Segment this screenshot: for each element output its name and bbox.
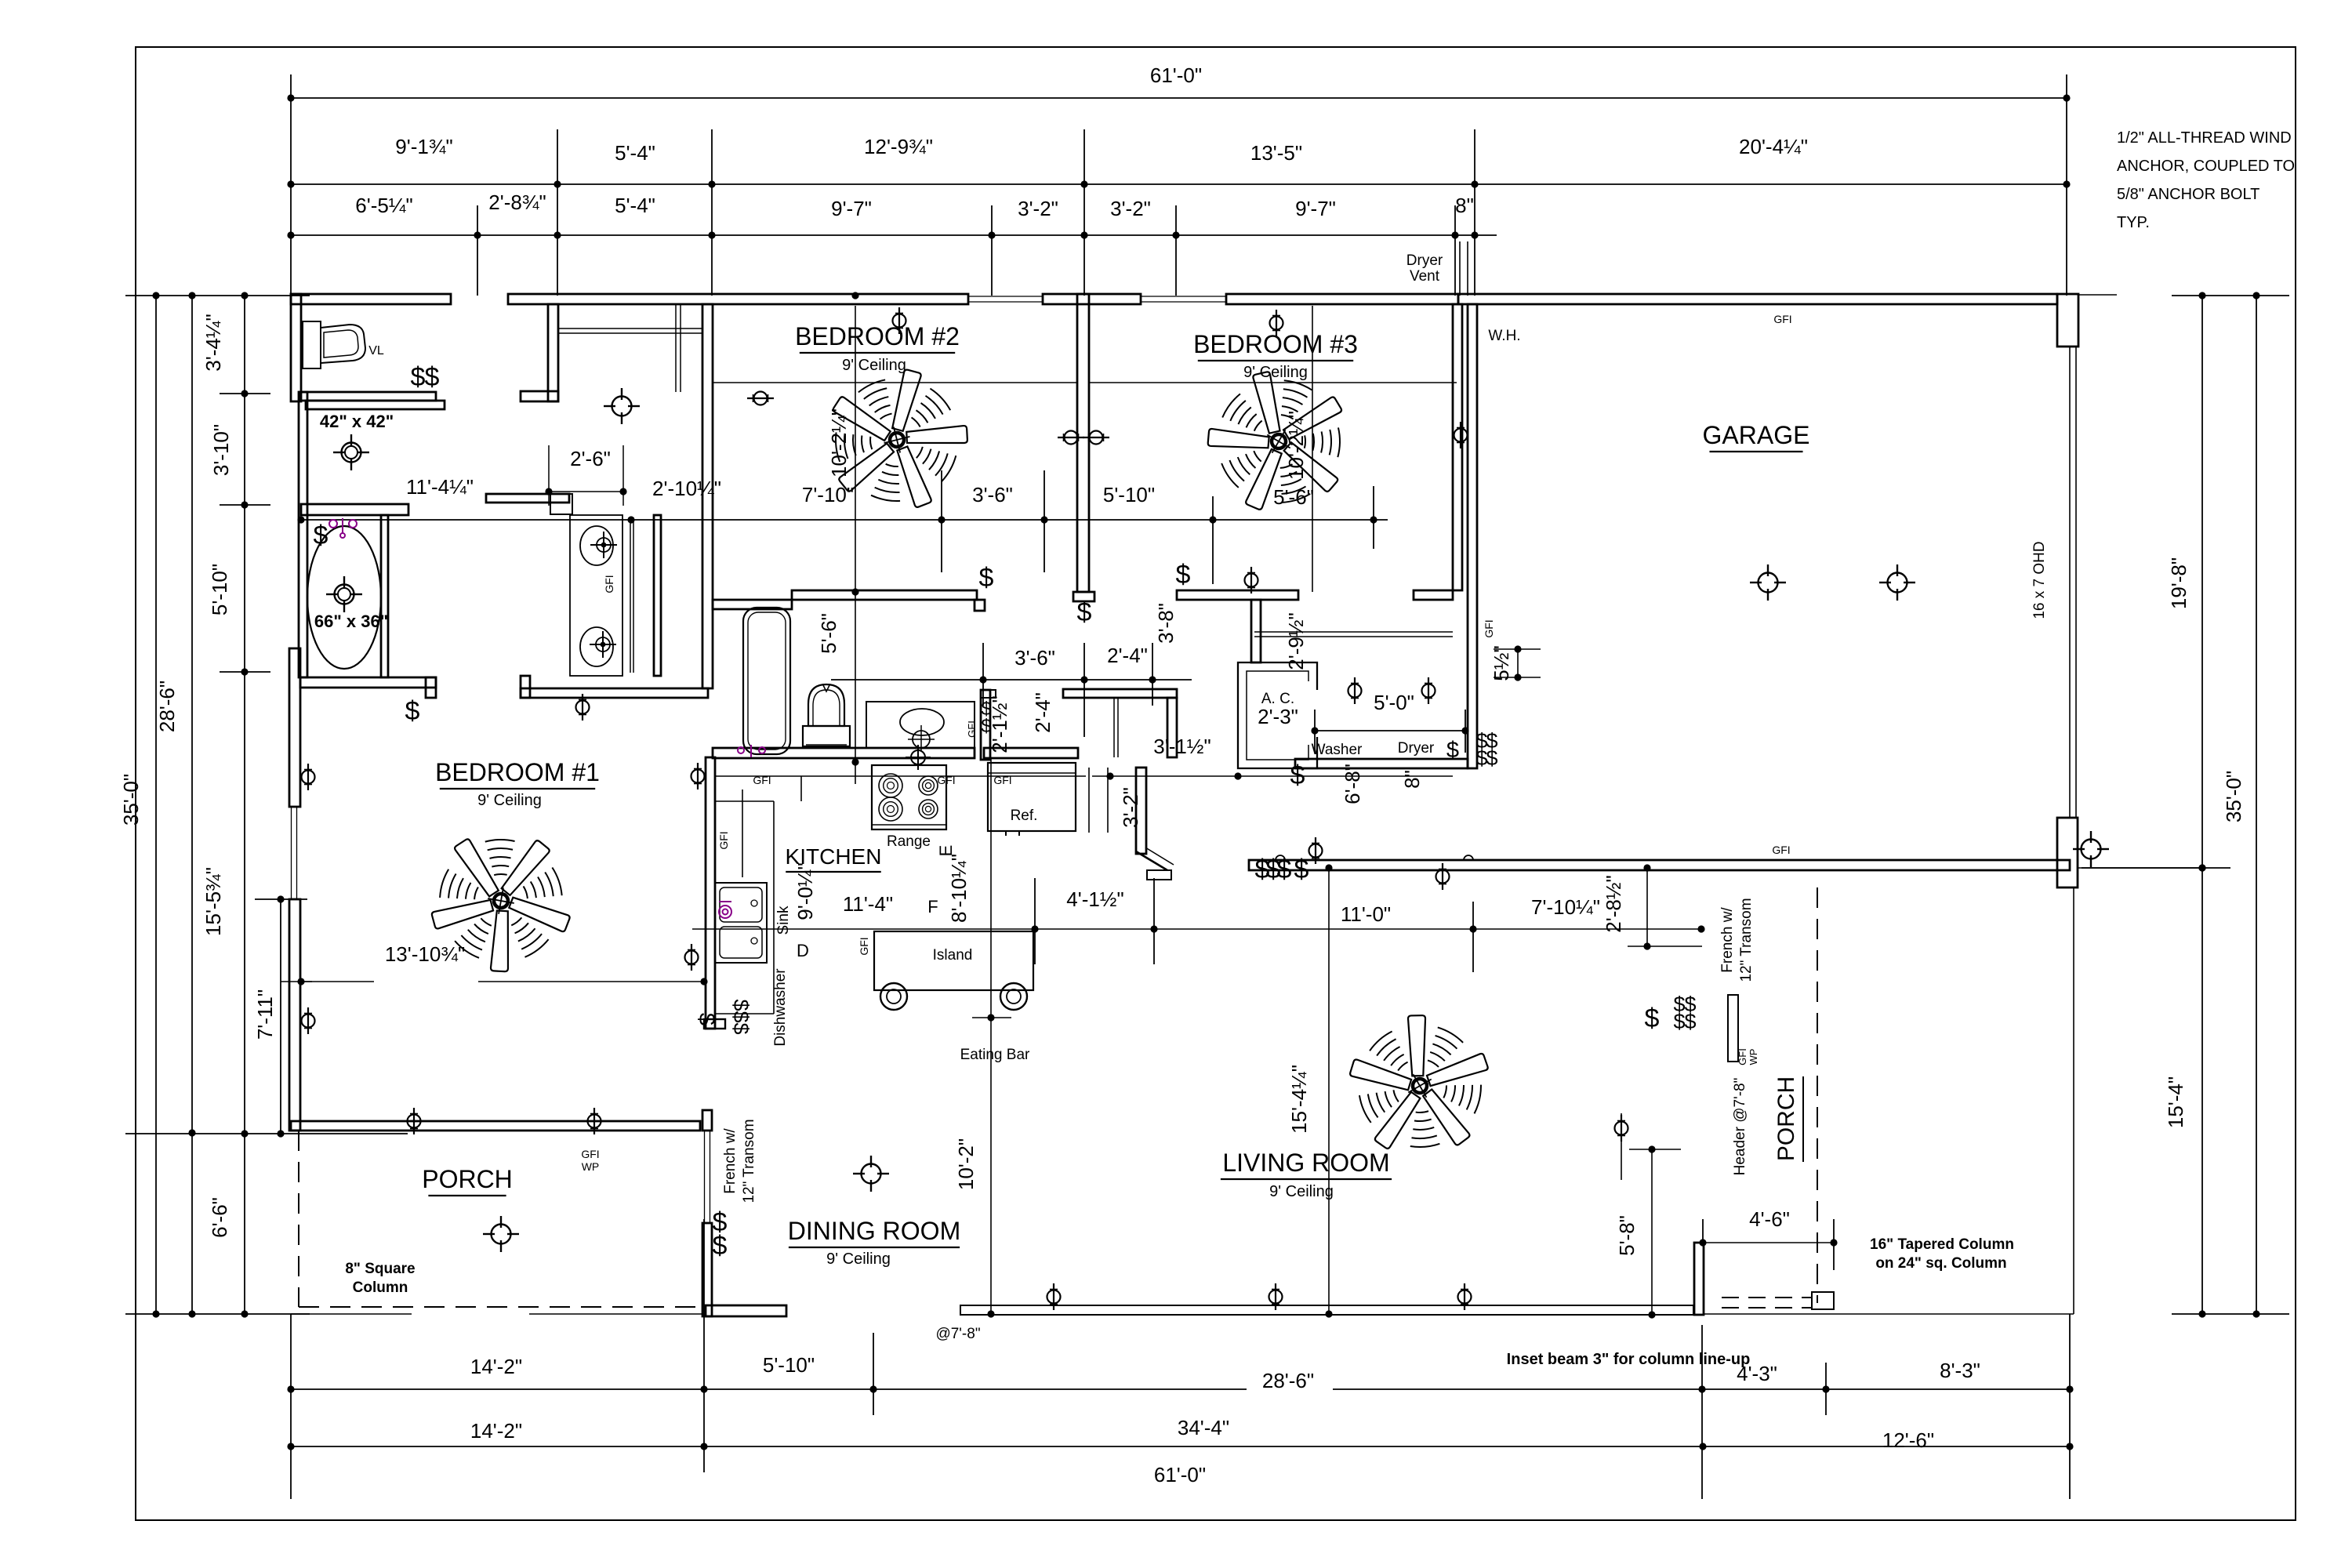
svg-text:16" Tapered Column: 16" Tapered Column — [1870, 1236, 2014, 1253]
svg-text:2'-9½": 2'-9½" — [1284, 612, 1308, 670]
svg-text:WP: WP — [1748, 1049, 1759, 1065]
svg-text:8" Square: 8" Square — [345, 1261, 415, 1277]
svg-text:11'-4": 11'-4" — [843, 892, 893, 916]
svg-text:9' Ceiling: 9' Ceiling — [477, 792, 542, 809]
svg-text:DINING ROOM: DINING ROOM — [788, 1217, 960, 1245]
svg-text:66" x 36": 66" x 36" — [314, 612, 388, 631]
svg-text:3'-1½": 3'-1½" — [1153, 735, 1210, 758]
svg-text:GFI: GFI — [753, 774, 771, 786]
svg-text:8": 8" — [1400, 770, 1424, 789]
svg-text:4'-1½": 4'-1½" — [1066, 887, 1123, 911]
svg-text:$: $ — [1290, 760, 1305, 790]
svg-text:Range: Range — [887, 833, 931, 850]
svg-text:GFI: GFI — [717, 831, 730, 849]
svg-text:12'-9¾": 12'-9¾" — [864, 135, 933, 158]
svg-text:PORCH: PORCH — [422, 1165, 513, 1193]
svg-text:5'-10": 5'-10" — [763, 1353, 815, 1377]
svg-text:BEDROOM #2: BEDROOM #2 — [795, 322, 960, 350]
svg-text:$: $ — [1684, 1010, 1696, 1033]
svg-text:9'-1¾": 9'-1¾" — [395, 135, 452, 158]
svg-text:28'-6": 28'-6" — [1262, 1369, 1314, 1392]
svg-text:12" Transom: 12" Transom — [741, 1119, 757, 1203]
svg-text:9' Ceiling: 9' Ceiling — [1269, 1183, 1334, 1200]
svg-text:GFI: GFI — [966, 720, 978, 738]
svg-text:on 24" sq. Column: on 24" sq. Column — [1875, 1255, 2006, 1272]
svg-text:3'-2": 3'-2" — [1018, 197, 1058, 220]
svg-text:$: $ — [425, 362, 440, 392]
svg-text:9' Ceiling: 9' Ceiling — [842, 357, 906, 374]
svg-text:15'-5¾": 15'-5¾" — [201, 867, 225, 936]
svg-text:61'-0": 61'-0" — [1150, 64, 1202, 87]
svg-text:VL: VL — [368, 344, 384, 358]
svg-text:10'-2": 10'-2" — [954, 1138, 978, 1190]
svg-text:5'-6": 5'-6" — [1273, 485, 1314, 509]
svg-text:5'-8": 5'-8" — [1615, 1215, 1639, 1256]
svg-text:GFI: GFI — [1773, 313, 1791, 325]
svg-text:6'-5¼": 6'-5¼" — [355, 194, 412, 217]
svg-text:19'-8": 19'-8" — [2167, 557, 2190, 609]
svg-text:3'-2": 3'-2" — [1119, 787, 1142, 828]
svg-text:12" Transom: 12" Transom — [1738, 898, 1755, 982]
svg-text:5½": 5½" — [1490, 645, 1513, 681]
svg-text:GFI: GFI — [1737, 1048, 1748, 1065]
svg-text:WP: WP — [582, 1160, 600, 1173]
svg-text:28'-6": 28'-6" — [155, 681, 179, 732]
svg-text:$: $ — [1446, 738, 1459, 763]
svg-text:8'-3": 8'-3" — [1940, 1359, 1980, 1382]
svg-text:9' Ceiling: 9' Ceiling — [1243, 364, 1308, 381]
svg-text:6'-8": 6'-8" — [1341, 764, 1364, 804]
svg-text:5'-6": 5'-6" — [817, 613, 840, 654]
svg-text:Ref.: Ref. — [1011, 808, 1038, 824]
svg-text:5'-4": 5'-4" — [615, 141, 655, 165]
svg-text:6'-6": 6'-6" — [208, 1197, 231, 1238]
svg-text:Eating Bar: Eating Bar — [960, 1047, 1030, 1063]
svg-text:Column: Column — [353, 1279, 408, 1296]
svg-text:5'-4": 5'-4" — [615, 194, 655, 217]
svg-text:2'-8½": 2'-8½" — [1602, 875, 1625, 932]
svg-text:7'-10": 7'-10" — [802, 483, 854, 506]
svg-text:GFI: GFI — [1772, 844, 1790, 856]
svg-text:Inset beam 3" for column line-: Inset beam 3" for column line-up — [1507, 1351, 1751, 1368]
svg-text:12'-6": 12'-6" — [1882, 1428, 1934, 1452]
svg-text:2'-4": 2'-4" — [1107, 644, 1148, 667]
svg-text:Dishwasher: Dishwasher — [772, 968, 789, 1047]
svg-text:34'-4": 34'-4" — [1178, 1416, 1229, 1439]
svg-text:$: $ — [979, 563, 994, 593]
svg-text:$: $ — [1077, 597, 1092, 627]
svg-text:$: $ — [1176, 560, 1191, 590]
svg-text:4'-6": 4'-6" — [1749, 1207, 1790, 1231]
svg-text:Dryer: Dryer — [1406, 252, 1443, 269]
svg-text:2'-8¾": 2'-8¾" — [488, 191, 546, 214]
svg-text:2'-4": 2'-4" — [1031, 692, 1054, 733]
svg-text:5'-10": 5'-10" — [1103, 483, 1155, 506]
svg-text:GARAGE: GARAGE — [1703, 421, 1810, 449]
svg-text:PORCH: PORCH — [1773, 1076, 1799, 1161]
svg-text:2'-3": 2'-3" — [1258, 705, 1298, 728]
svg-text:BEDROOM #3: BEDROOM #3 — [1193, 330, 1358, 358]
svg-text:61'-0": 61'-0" — [1154, 1463, 1206, 1486]
svg-text:$: $ — [1486, 746, 1497, 770]
svg-text:2'-10¼": 2'-10¼" — [652, 477, 721, 500]
svg-text:$: $ — [713, 1231, 728, 1261]
svg-text:5/8" ANCHOR BOLT: 5/8" ANCHOR BOLT — [2117, 186, 2259, 203]
svg-text:15'-4": 15'-4" — [2164, 1076, 2187, 1128]
svg-text:35'-0": 35'-0" — [119, 774, 143, 826]
svg-text:BEDROOM #1: BEDROOM #1 — [435, 758, 600, 786]
svg-text:$: $ — [694, 1013, 719, 1025]
svg-text:Vent: Vent — [1410, 268, 1440, 285]
svg-text:3'-10": 3'-10" — [209, 424, 233, 476]
svg-text:13'-10¾": 13'-10¾" — [385, 942, 465, 966]
svg-text:D: D — [797, 941, 809, 960]
svg-text:$: $ — [1294, 855, 1309, 884]
svg-text:$: $ — [411, 362, 426, 392]
svg-text:8": 8" — [1455, 194, 1474, 217]
svg-text:French w/: French w/ — [1719, 907, 1736, 973]
svg-text:$: $ — [1277, 855, 1292, 884]
svg-text:15'-4¼": 15'-4¼" — [1287, 1065, 1311, 1134]
svg-text:$: $ — [729, 999, 753, 1011]
svg-text:5'-0": 5'-0" — [1374, 691, 1414, 714]
svg-text:13'-5": 13'-5" — [1250, 141, 1302, 165]
svg-text:42" x 42": 42" x 42" — [320, 412, 394, 431]
svg-text:3'-4¼": 3'-4¼" — [201, 314, 225, 371]
svg-text:TYP.: TYP. — [2117, 214, 2150, 231]
svg-text:E: E — [936, 845, 956, 857]
svg-text:$: $ — [314, 521, 328, 550]
svg-text:3'-6": 3'-6" — [972, 483, 1013, 506]
svg-text:LIVING ROOM: LIVING ROOM — [1222, 1149, 1389, 1177]
svg-text:9' Ceiling: 9' Ceiling — [826, 1250, 891, 1268]
svg-text:$: $ — [1645, 1004, 1660, 1033]
svg-text:14'-2": 14'-2" — [470, 1355, 522, 1378]
svg-text:8'-10¼": 8'-10¼" — [947, 854, 971, 923]
svg-text:9'-7": 9'-7" — [831, 197, 872, 220]
svg-text:Header @7'-8": Header @7'-8" — [1732, 1078, 1748, 1176]
svg-text:GFI: GFI — [993, 774, 1011, 786]
svg-text:GFI: GFI — [603, 575, 615, 593]
svg-text:9'-7": 9'-7" — [1295, 197, 1336, 220]
svg-text:3'-2": 3'-2" — [1110, 197, 1151, 220]
svg-text:$: $ — [729, 1022, 753, 1034]
svg-text:11'-4¼": 11'-4¼" — [406, 475, 474, 499]
svg-text:14'-2": 14'-2" — [470, 1419, 522, 1443]
svg-text:$: $ — [405, 696, 420, 726]
svg-text:@7'-8": @7'-8" — [935, 1326, 980, 1342]
svg-text:7'-11": 7'-11" — [253, 989, 277, 1040]
svg-text:Washer: Washer — [1312, 742, 1363, 758]
svg-text:French w/: French w/ — [722, 1128, 739, 1194]
svg-text:Sink: Sink — [775, 906, 792, 935]
svg-text:11'-0": 11'-0" — [1341, 902, 1391, 926]
svg-text:3'-6": 3'-6" — [1014, 646, 1055, 670]
svg-text:2'-6": 2'-6" — [570, 447, 611, 470]
svg-text:$: $ — [1673, 1010, 1685, 1033]
svg-text:KITCHEN: KITCHEN — [786, 844, 882, 869]
svg-text:Dryer: Dryer — [1398, 740, 1435, 757]
svg-text:ANCHOR, COUPLED TO: ANCHOR, COUPLED TO — [2117, 158, 2295, 175]
svg-text:5'-10": 5'-10" — [208, 564, 231, 615]
svg-text:Island: Island — [933, 947, 973, 964]
svg-text:1/2" ALL-THREAD WIND: 1/2" ALL-THREAD WIND — [2117, 129, 2292, 147]
svg-text:GFI: GFI — [858, 937, 870, 955]
svg-text:$: $ — [729, 1011, 753, 1022]
svg-text:GFI: GFI — [937, 774, 955, 786]
svg-text:3'-8": 3'-8" — [1154, 603, 1178, 644]
svg-text:7'-10¼": 7'-10¼" — [1531, 895, 1600, 919]
svg-text:W.H.: W.H. — [1488, 328, 1520, 344]
svg-text:F: F — [927, 897, 938, 916]
svg-text:GFI: GFI — [581, 1148, 599, 1160]
svg-text:GFI: GFI — [1483, 619, 1495, 637]
svg-text:20'-4¼": 20'-4¼" — [1739, 135, 1808, 158]
svg-text:35'-0": 35'-0" — [2222, 771, 2245, 822]
svg-text:16 x 7 OHD: 16 x 7 OHD — [2031, 541, 2048, 619]
